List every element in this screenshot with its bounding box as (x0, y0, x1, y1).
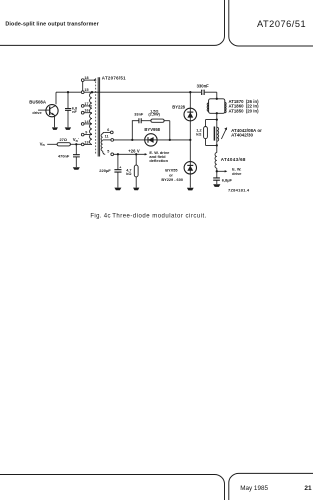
svg-text:kΩ: kΩ (126, 172, 131, 176)
svg-text:kΩ: kΩ (196, 132, 201, 136)
secondary winding (103, 132, 105, 134)
pin 15 (81, 91, 84, 94)
ground: C2 (73, 167, 80, 170)
pin 13 (84, 143, 92, 145)
resistor R2 4,7k (135, 153, 137, 155)
pin 14 (84, 123, 92, 125)
wire: collector riser (55, 92, 57, 104)
capacitor C3 220uF (117, 153, 119, 155)
wire diode column (189, 92, 191, 187)
svg-text:6: 6 (107, 128, 109, 132)
svg-text:16: 16 (84, 109, 88, 113)
svg-text:VB': VB' (73, 137, 79, 143)
svg-text:drive: drive (232, 171, 242, 176)
wire VB to resistor (47, 143, 57, 145)
svg-text:+26 V: +26 V (128, 148, 140, 153)
ground: C3 (114, 188, 121, 191)
svg-text:(2,5W): (2,5W) (148, 113, 160, 117)
ground: R2 (133, 188, 139, 191)
capacitor C6 6,8uF (213, 178, 220, 180)
svg-text:Fig. 4c: Fig. 4c (90, 213, 110, 219)
svg-text:BU508A: BU508A (29, 100, 47, 105)
wire: right branch down to yoke (216, 92, 218, 99)
capacitor C5 330nF (202, 90, 204, 95)
wire pin18-pin15 link (82, 81, 84, 90)
svg-text:13: 13 (84, 140, 88, 144)
E.W. drive arrow (217, 170, 225, 172)
resistor R3 1,5 ohm 2,5W (151, 119, 164, 122)
transistor Q1 BU508A (38, 105, 58, 128)
wire pin11 to BY228 node (114, 139, 191, 141)
wire resistor to pin 13 (70, 143, 81, 145)
svg-text:nF: nF (72, 110, 77, 114)
svg-text:VB: VB (40, 141, 46, 147)
svg-text:AT4042/30: AT4042/30 (231, 133, 253, 138)
svg-text:BYV958: BYV958 (144, 127, 160, 132)
ground: C1 (65, 127, 71, 129)
svg-text:11: 11 (105, 135, 109, 139)
svg-text:18: 18 (84, 76, 88, 80)
transformer core dashed line (95, 78, 97, 155)
svg-text:7Z84181.4: 7Z84181.4 (228, 188, 250, 193)
svg-text:or: or (169, 173, 173, 177)
page frame: footer tab border (0, 475, 225, 500)
snubber branch 33nF + 1,5 ohm (132, 121, 139, 140)
pin 18 (84, 79, 94, 81)
inductor L2 AT4043/68 (216, 145, 218, 152)
svg-text:Diode-split line output transf: Diode-split line output transformer (5, 22, 98, 28)
svg-text:BY228: BY228 (172, 104, 185, 109)
svg-text:330nF: 330nF (197, 83, 210, 88)
ground: C6 (213, 184, 220, 187)
diode D1 BYV958 (145, 134, 157, 146)
primary winding (90, 93, 92, 145)
diode D2 BY228 (184, 108, 197, 121)
pin 5 (111, 153, 114, 156)
svg-text:+: + (119, 165, 121, 169)
ground: emitter (52, 127, 58, 129)
svg-text:6,8µF: 6,8µF (222, 178, 233, 183)
svg-text:AT2076/51: AT2076/51 (102, 76, 126, 81)
capacitor C1 6,8 nF (65, 91, 71, 127)
parallel section top/bottom links (206, 120, 217, 146)
svg-text:33nF: 33nF (134, 112, 144, 116)
wire yoke to linearity section (216, 113, 218, 119)
svg-text:AT1850 (20 in): AT1850 (20 in) (229, 108, 260, 113)
svg-text:470nF: 470nF (58, 153, 70, 158)
svg-text:5: 5 (107, 150, 109, 154)
svg-text:Three-diode modulator circuit.: Three-diode modulator circuit. (112, 213, 207, 219)
capacitor C4 33nF (139, 118, 141, 123)
resistor R1 27 ohm (57, 143, 70, 146)
capacitor C2 470nF (75, 144, 77, 154)
svg-text:15: 15 (84, 88, 88, 92)
svg-text:27Ω: 27Ω (60, 137, 67, 142)
pin 9 (84, 134, 92, 136)
svg-text:17: 17 (84, 102, 88, 106)
transformer core bars (98, 77, 99, 156)
pin 11 (103, 139, 111, 141)
wire +26V rail (114, 153, 145, 155)
svg-text:21: 21 (304, 485, 312, 492)
ground: BYX55 (187, 188, 194, 191)
svg-text:BY229 - 600: BY229 - 600 (161, 178, 183, 182)
resistor R4 1,2k (204, 127, 208, 139)
wire: main collector line (top horizontal) (56, 91, 217, 93)
svg-text:220µF: 220µF (99, 168, 111, 173)
linearity coil L1 AT4042 (216, 120, 218, 146)
pin 16 (84, 112, 92, 114)
svg-text:AT4043/68: AT4043/68 (221, 157, 246, 162)
pin 17 (84, 105, 92, 107)
svg-text:9: 9 (85, 131, 87, 135)
svg-text:14: 14 (84, 120, 89, 124)
deflection yoke coils (209, 99, 225, 114)
svg-text:BYX55: BYX55 (165, 169, 178, 173)
svg-text:deflection: deflection (149, 158, 168, 163)
svg-text:drive: drive (32, 111, 41, 115)
diode D3 BYX55 (184, 162, 196, 174)
svg-text:AT2076/51: AT2076/51 (257, 19, 306, 29)
svg-text:May 1985: May 1985 (240, 485, 268, 492)
pin 6 (104, 131, 110, 133)
page frame: header tab border (0, 0, 225, 45)
